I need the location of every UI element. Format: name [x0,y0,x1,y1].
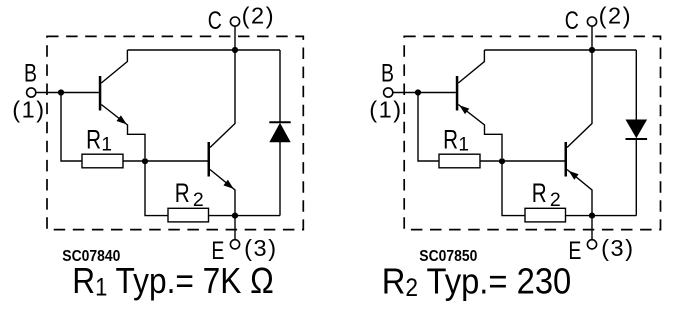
wire node N3 down to R1 [418,93,439,162]
package outline left (dashed) [47,36,303,229]
node E junction dot [232,213,238,219]
node C junction dot [232,47,238,53]
node C junction dot (right) [589,47,595,53]
wire node N1 down to R1 [61,93,82,162]
wire B terminal to Q3 base [393,92,456,94]
Q4 emitter path [567,170,592,216]
svg-text:E: E [568,237,581,265]
wire R1 to node N2 [123,160,145,162]
diode D1 upper lead [279,50,281,122]
Q4 collector path to C rail [567,50,592,148]
svg-text:R: R [443,125,458,155]
svg-text:(2): (2) [242,3,276,29]
wire C terminal lead [234,26,236,50]
svg-text:R: R [86,125,101,155]
wire R2 to node E (right) [566,215,593,217]
terminal C circle (pin 2) right [587,17,596,26]
svg-text:(3): (3) [601,235,635,261]
diode D2 upper lead [635,50,637,120]
Q1 emitter arrow (NPN) [117,115,127,124]
svg-text:(3): (3) [244,235,278,261]
node E junction dot (right) [589,213,595,219]
resistor R1 body [82,154,123,168]
wire node N2 down to R2 [145,161,168,216]
svg-text:R: R [175,179,190,209]
Q1 collector path [101,50,127,83]
top rail wire to C [127,49,280,51]
svg-text:C: C [565,7,579,35]
wire node E to diode D2 [592,215,636,217]
transistor Q4 base bar [565,142,568,177]
resistor R2 body (right) [525,208,566,222]
wire node N4 to Q4 base [502,160,565,162]
node N4 junction dot [499,158,505,164]
svg-text:2: 2 [193,189,204,211]
Q2 emitter path [210,170,235,216]
diode D1 triangle (anode, pointing up) [269,123,290,143]
wire node N4 down to R2 [502,161,525,216]
Q3 collector path [458,50,484,83]
Q2 collector path to C rail [210,50,235,148]
Q3 emitter arrow (PNP, pointing to base) [459,105,469,114]
diode D1 cathode bar [269,121,290,123]
top rail wire to C (right) [484,49,636,51]
wire node N2 to Q2 base [145,160,208,162]
svg-text:1: 1 [101,135,112,156]
wire R1 to node N4 [480,160,502,162]
wire R2 to node E [209,215,236,217]
node N3 junction dot [415,89,421,95]
svg-text:(2): (2) [599,3,633,29]
Q4 emitter arrow (PNP, pointing to base) [569,171,579,180]
transistor Q3 base bar [456,76,459,111]
terminal E circle (pin 3) [230,240,239,249]
Q2 emitter arrow (NPN) [223,180,233,189]
wire C terminal lead (right) [591,26,593,50]
terminal B circle (pin 1) [27,88,36,97]
svg-text:2: 2 [550,189,561,211]
package outline right (dashed) [404,36,660,229]
Q1 emitter path [101,105,145,159]
terminal E circle (pin 3) right [587,240,596,249]
diode D2 triangle (anode, pointing down) [626,120,648,139]
svg-text:C: C [208,7,222,35]
wire E terminal lead [234,216,236,240]
svg-text:(1): (1) [369,96,403,122]
terminal C circle (pin 2) [230,17,239,26]
node N1 junction dot [58,89,64,95]
terminal B circle (pin 1) right [384,88,393,97]
diode D2 cathode bar [626,138,648,140]
svg-text:1: 1 [458,135,469,156]
svg-text:B: B [381,59,394,87]
wire node E to diode D1 [235,215,280,217]
Q3 emitter path [458,105,502,159]
wire B terminal to Q1 base [36,92,99,94]
transistor Q1 base bar [99,76,102,111]
diode D1 lower lead [279,142,281,216]
svg-text:(1): (1) [12,96,46,122]
resistor R1 body (right) [439,154,480,168]
transistor Q2 base bar [208,142,211,177]
wire E terminal lead (right) [591,216,593,240]
diode D2 lower lead [635,139,637,216]
svg-text:R: R [532,179,547,209]
node N2 junction dot [142,158,148,164]
svg-text:B: B [24,59,37,87]
resistor R2 body [168,208,209,222]
